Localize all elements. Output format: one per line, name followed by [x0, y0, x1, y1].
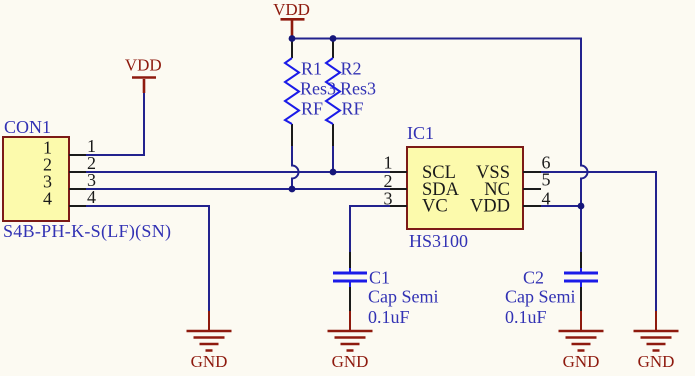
- resistor R1: [285, 39, 336, 147]
- ground GND left: [187, 311, 232, 371]
- capacitor C2: [505, 252, 598, 327]
- IC1 pin 2: [384, 171, 408, 191]
- junction node VDD rail at R2: [330, 35, 337, 42]
- CON1 pin 1: [69, 136, 96, 156]
- CON1 pin 3: [69, 170, 96, 190]
- power VDD left symbol: [125, 56, 162, 94]
- svg-text:Res3: Res3: [340, 79, 376, 99]
- svg-text:C1: C1: [369, 268, 390, 288]
- svg-text:3: 3: [384, 189, 393, 209]
- IC1 pin 4: [523, 189, 551, 209]
- ground GND right: [634, 311, 679, 371]
- svg-text:RF: RF: [342, 99, 364, 119]
- svg-text:VDD: VDD: [470, 197, 510, 217]
- CON1 pin 4: [69, 187, 96, 207]
- svg-text:0.1uF: 0.1uF: [505, 307, 547, 327]
- svg-text:HS3100: HS3100: [409, 231, 468, 251]
- svg-text:VC: VC: [422, 197, 448, 217]
- junction node R1 on SDA: [289, 186, 296, 193]
- IC1 pin 5: [523, 170, 551, 190]
- wire VC pin3 to C1: [350, 206, 390, 252]
- svg-text:GND: GND: [638, 352, 675, 371]
- junction node R2 on SCL: [330, 169, 337, 176]
- wire R2 bottom: [332, 146, 334, 172]
- svg-text:IC1: IC1: [407, 123, 434, 143]
- svg-text:4: 4: [542, 189, 551, 209]
- wire IC pin4 VDD: [541, 205, 581, 207]
- connector CON1: [3, 117, 171, 242]
- IC1 pin 6: [523, 153, 551, 173]
- svg-text:R2: R2: [341, 59, 362, 79]
- svg-text:4: 4: [43, 189, 52, 209]
- wire SDA net: [86, 188, 390, 190]
- wire R1 bottom with hop: [292, 146, 299, 189]
- wire VDD rail top and right vertical with hop: [292, 39, 588, 253]
- resistor R2: [326, 39, 376, 147]
- wire pin4 CON1 to GND: [86, 206, 209, 311]
- ground GND under C2: [559, 311, 604, 371]
- svg-text:S4B-PH-K-S(LF)(SN): S4B-PH-K-S(LF)(SN): [3, 221, 171, 242]
- power VDD top symbol: [273, 0, 310, 39]
- svg-text:Cap Semi: Cap Semi: [368, 287, 439, 307]
- IC1 pin 1: [384, 153, 408, 173]
- wire SCL net: [86, 171, 390, 173]
- wire VSS pin6 to right GND: [541, 172, 656, 311]
- svg-text:5: 5: [542, 170, 551, 190]
- svg-text:GND: GND: [332, 352, 369, 371]
- IC1 pin 3: [384, 189, 408, 209]
- svg-text:GND: GND: [191, 352, 228, 371]
- svg-text:4: 4: [87, 187, 96, 207]
- junction node VDD rail at R1: [289, 35, 296, 42]
- svg-text:0.1uF: 0.1uF: [368, 307, 410, 327]
- CON1 pin 2: [69, 153, 96, 173]
- svg-text:R1: R1: [301, 59, 322, 79]
- svg-text:VDD: VDD: [125, 56, 162, 75]
- svg-text:1: 1: [384, 153, 393, 173]
- svg-text:GND: GND: [563, 352, 600, 371]
- svg-text:C2: C2: [523, 268, 544, 288]
- svg-text:Cap Semi: Cap Semi: [505, 287, 576, 307]
- svg-text:CON1: CON1: [4, 117, 51, 137]
- wire C1 top blue segment: [349, 206, 351, 252]
- svg-text:RF: RF: [301, 99, 323, 119]
- wire pin1 CON1 to VDD: [86, 93, 144, 155]
- junction node IC pin4 on VDD vertical: [578, 203, 585, 210]
- capacitor C1: [333, 252, 439, 327]
- svg-text:Res3: Res3: [300, 79, 336, 99]
- ground GND under C1: [328, 311, 373, 371]
- svg-text:VDD: VDD: [273, 0, 310, 19]
- op IC1 body: [407, 123, 523, 251]
